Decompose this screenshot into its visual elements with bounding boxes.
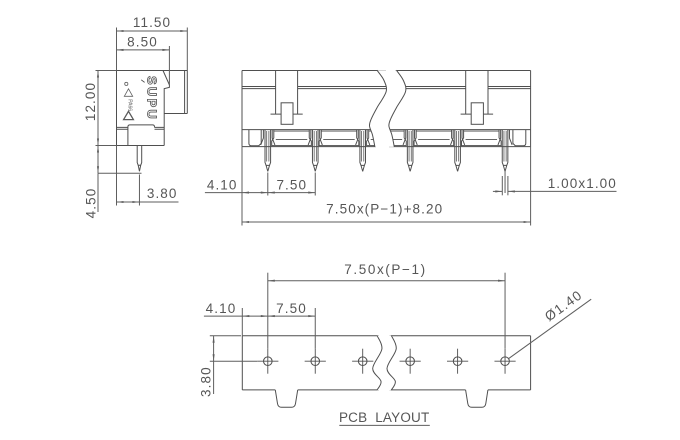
pcb layout: strip outline bbox=[242, 336, 530, 390]
side view: right block inner edge bbox=[184, 71, 186, 114]
front view: right end tab bbox=[513, 130, 526, 146]
dimension 7.50x(P-1)+8.20 line and arrows bbox=[242, 221, 531, 223]
pcb dims: hole 1 extension bbox=[267, 273, 269, 349]
front view: pin 3 shroud bbox=[356, 130, 370, 145]
dimension 3.80 extension lines (pcb) bbox=[210, 335, 241, 337]
pcb layout: break line left bbox=[373, 336, 382, 391]
front view: left end tab bbox=[249, 130, 261, 146]
front view: recess between pins bbox=[319, 130, 359, 146]
dimension 11.50 line and arrows bbox=[117, 30, 188, 32]
dimension 4.50 line and arrows bbox=[97, 146, 99, 174]
front view dims: pin 1 center extension bbox=[267, 173, 269, 196]
svg-text:11.50: 11.50 bbox=[133, 15, 171, 30]
side view: recycle triangle mark bbox=[124, 89, 132, 97]
pcb layout: hole 1 circle bbox=[264, 357, 273, 366]
pcb layout: hole 3 crosshair bbox=[352, 360, 373, 362]
front view dims: pin 2 center extension bbox=[314, 173, 316, 196]
dimension 12.00 extension lines bbox=[96, 70, 117, 72]
pcb layout: hole 2 circle bbox=[311, 357, 320, 366]
svg-text:12.00: 12.00 bbox=[83, 82, 98, 121]
svg-text:3.80: 3.80 bbox=[147, 186, 178, 201]
dimension 11.50 extension lines bbox=[116, 28, 118, 71]
dimension dia 1.40 leader line bbox=[509, 299, 592, 359]
dimension 8.50 extension line bbox=[168, 46, 170, 85]
svg-text:8.50: 8.50 bbox=[127, 34, 158, 49]
svg-text:1.00x1.00: 1.00x1.00 bbox=[548, 176, 617, 191]
side view: front chamfer and step bbox=[163, 71, 169, 146]
front view: pin 5 shroud bbox=[451, 130, 465, 145]
pcb layout: break line right bbox=[387, 336, 396, 391]
pcb layout: hole 5 circle bbox=[453, 357, 462, 366]
pcb layout: hole 5 crosshair bbox=[447, 360, 468, 362]
front view: recess stub left of break bbox=[367, 130, 376, 146]
dimension 8.50 line and arrows bbox=[117, 49, 170, 51]
pcb layout: hole 6 circle bbox=[501, 357, 510, 366]
title underline bbox=[339, 424, 430, 426]
front view: pin 6 shroud bbox=[498, 130, 512, 145]
front view: pin 3 bbox=[360, 130, 366, 172]
dimension 4.50 extension line at pin tip bbox=[98, 172, 142, 174]
side view: mold tick mark bbox=[141, 80, 144, 83]
svg-text:7.50x(P−1)+8.20: 7.50x(P−1)+8.20 bbox=[326, 201, 443, 216]
dimension 7.50x(P-1) line and arrows bbox=[268, 280, 505, 282]
dimension 3.80 line and arrows (pcb) bbox=[213, 336, 215, 361]
pcb layout: notch 2 bbox=[466, 390, 488, 407]
side view: base tab and parting lines bbox=[128, 125, 155, 146]
front view: pin 5 bbox=[455, 130, 461, 172]
front view: body outline bbox=[242, 71, 531, 147]
pcb dims: hole 2 extension bbox=[314, 308, 316, 349]
pcb dims: hole 6 extension bbox=[504, 273, 506, 349]
dimension 12.00 line and arrows bbox=[97, 71, 99, 146]
side view: connector body outline bbox=[117, 71, 188, 146]
front view: pin 6 bbox=[502, 130, 508, 172]
front view: break-line gap (white out) bbox=[369, 70, 405, 147]
pcb layout: hole 6 crosshair bbox=[494, 360, 515, 362]
front view: latch 2 catch window bbox=[471, 103, 483, 125]
pcb layout: hole 4 crosshair bbox=[400, 360, 421, 362]
dimension 1.00x1.00 extensions at pin 6 bbox=[501, 176, 503, 195]
front view: pin 4 bbox=[407, 130, 413, 172]
pcb layout: hole 2 crosshair bbox=[305, 360, 326, 362]
side view: UL triangle mark bbox=[124, 111, 134, 119]
front view dims: right edge extension bbox=[530, 147, 532, 226]
front view: pin 1 bbox=[265, 130, 271, 172]
svg-text:7.50x(P−1): 7.50x(P−1) bbox=[344, 262, 426, 277]
side view: registered trademark circle bbox=[125, 82, 128, 85]
pcb layout: hole 4 circle bbox=[406, 357, 415, 366]
front view: pin 2 bbox=[312, 130, 318, 172]
front view: recess between pins bbox=[462, 130, 502, 146]
svg-text:4.10: 4.10 bbox=[206, 301, 237, 316]
svg-text:3.80: 3.80 bbox=[198, 366, 213, 397]
front view: base top line bbox=[242, 129, 531, 131]
pcb layout: break-line gap (white out) bbox=[373, 336, 397, 391]
front view: pin 4 shroud bbox=[403, 130, 417, 145]
dimension 3.80 line and arrows bbox=[117, 201, 179, 203]
svg-text:7.50: 7.50 bbox=[276, 178, 307, 193]
front view: cover seam double line bbox=[242, 86, 531, 88]
pcb layout: hole 1 crosshair bbox=[257, 360, 278, 362]
front view: base bottom line bbox=[242, 146, 531, 148]
front view: break line right bbox=[389, 70, 406, 147]
svg-text:PCB LAYOUT: PCB LAYOUT bbox=[339, 410, 429, 425]
svg-text:7.50: 7.50 bbox=[276, 301, 307, 316]
pcb layout: notch 1 bbox=[275, 390, 297, 407]
front view: break line left bbox=[369, 70, 386, 147]
svg-text:SUPU: SUPU bbox=[145, 76, 160, 120]
front view: recess between pins bbox=[272, 130, 312, 146]
front view: mounting latch 1 bbox=[271, 71, 303, 115]
pcb dims: strip left edge extension bbox=[241, 308, 243, 336]
dimension 4.10 / 7.50 line and arrows (pcb) bbox=[204, 315, 315, 317]
front view: recess between pins bbox=[414, 130, 454, 146]
front view: recess stub right of break bbox=[389, 130, 406, 146]
dimension 4.10 / 7.50 line and arrows (front) bbox=[205, 192, 315, 194]
side view: solder pin bbox=[137, 146, 142, 172]
front view: latch 1 catch window bbox=[281, 103, 293, 125]
dimension 3.80 extension lines bbox=[116, 146, 118, 206]
front view: pin 2 shroud bbox=[308, 130, 322, 145]
front view: pin 1 shroud bbox=[261, 130, 275, 145]
pcb layout: hole 3 circle bbox=[358, 357, 367, 366]
dimension 1.00x1.00 line and arrows bbox=[493, 190, 502, 192]
front view: mounting latch 2 bbox=[461, 71, 494, 115]
svg-text:4.50: 4.50 bbox=[83, 188, 98, 219]
front view dims: left edge extension bbox=[241, 147, 243, 226]
svg-text:PA66: PA66 bbox=[126, 99, 132, 111]
svg-text:4.10: 4.10 bbox=[207, 178, 238, 193]
